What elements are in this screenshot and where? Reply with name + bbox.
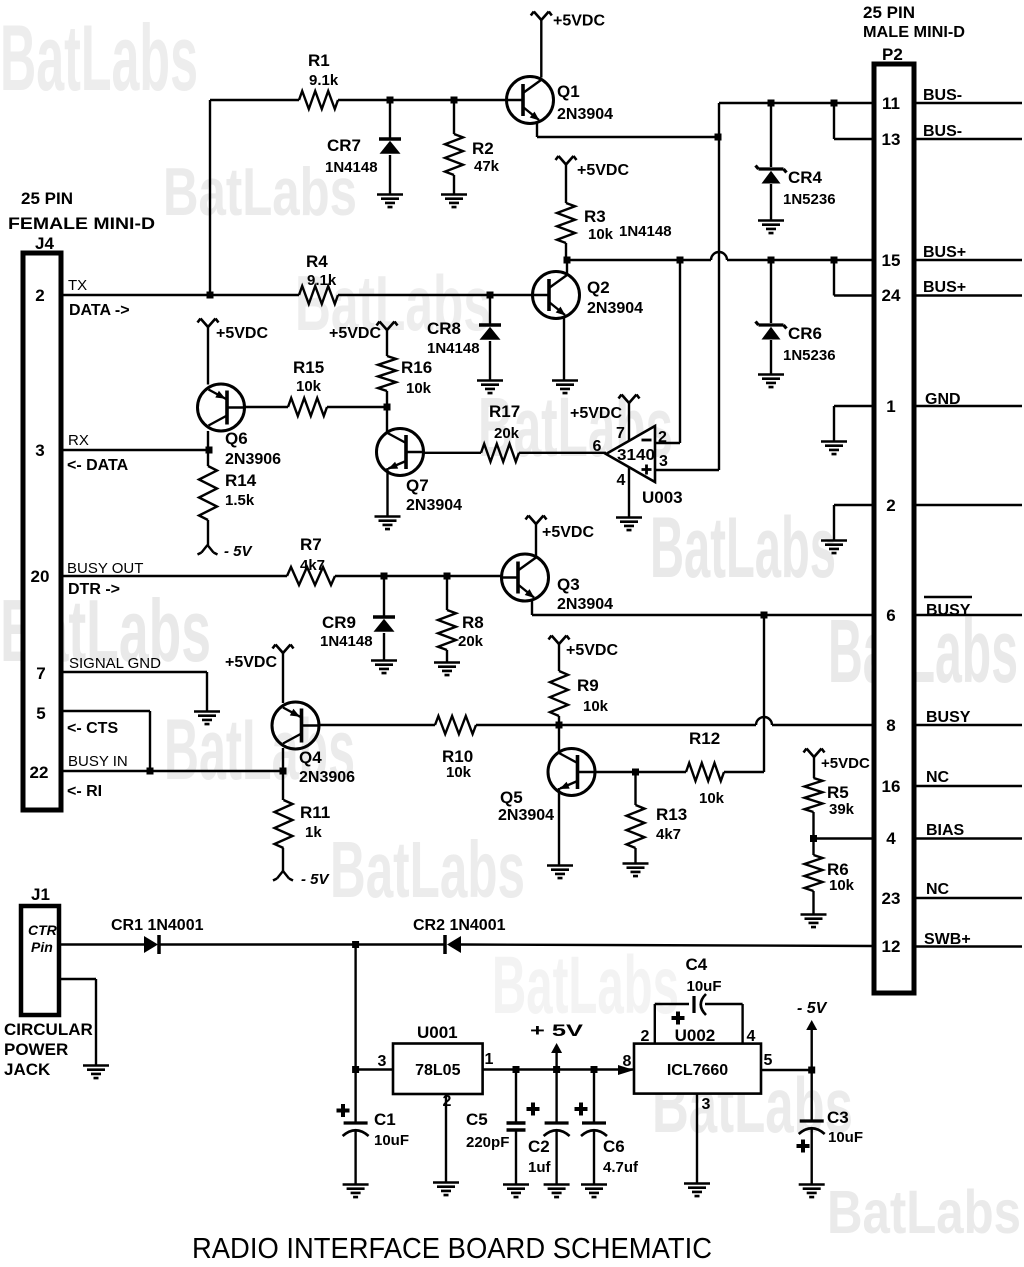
svg-text:4k7: 4k7 xyxy=(300,557,325,574)
ground below CR8 xyxy=(477,381,503,394)
svg-text:GND: GND xyxy=(925,391,961,408)
svg-text:16: 16 xyxy=(882,777,901,796)
svg-text:Q3: Q3 xyxy=(557,575,580,594)
svg-text:BatLabs: BatLabs xyxy=(650,500,836,596)
wire C2 to ground xyxy=(555,1129,557,1184)
svg-text:8: 8 xyxy=(886,716,895,735)
node pin24 branch junction xyxy=(831,257,838,264)
svg-text:CTR: CTR xyxy=(28,922,58,938)
svg-text:220pF: 220pF xyxy=(466,1134,509,1151)
wire junction to Q7 collector xyxy=(386,407,388,433)
power +5VDC antenna at R3 xyxy=(556,156,577,165)
svg-text:2: 2 xyxy=(886,496,895,515)
capacitor C4 bracket right xyxy=(705,1003,743,1005)
ground below Q7 xyxy=(375,517,401,530)
svg-text:15: 15 xyxy=(882,251,901,270)
ground below R2 xyxy=(441,195,467,208)
ground at SIGNAL GND xyxy=(194,712,220,725)
power +5VDC antenna at Q4 xyxy=(273,645,294,654)
power +5VDC antenna at R16 xyxy=(377,322,398,331)
wire U001 pin3 input xyxy=(356,1068,393,1070)
resistor R10 xyxy=(435,716,476,734)
power +5VDC antenna at R5 xyxy=(804,749,825,758)
svg-text:+5VDC: +5VDC xyxy=(566,642,618,659)
transistor Q4 xyxy=(272,702,319,749)
svg-text:2N3904: 2N3904 xyxy=(557,106,613,123)
wire BUSY IN line xyxy=(61,770,283,772)
wire Q3 emitter to pin6 xyxy=(531,600,533,615)
svg-text:10k: 10k xyxy=(588,226,614,243)
wire RX line xyxy=(61,449,209,451)
wire into U002 pin8 with arrowhead xyxy=(618,1065,634,1075)
svg-text:1N5236: 1N5236 xyxy=(783,347,836,364)
wire +5V rail xyxy=(483,1068,634,1070)
node pin13 branch junction xyxy=(831,100,838,107)
node CR6 junction xyxy=(768,257,775,264)
node R3/Q2 junction xyxy=(564,257,571,264)
wire BUS+ line right xyxy=(727,259,874,261)
power +5V arrow xyxy=(551,1043,562,1053)
resistor R2 xyxy=(453,100,455,134)
svg-text:2N3906: 2N3906 xyxy=(299,769,355,786)
wire Q5 emitter to ground xyxy=(558,788,560,865)
transistor Q6 xyxy=(198,384,245,431)
svg-text:1: 1 xyxy=(485,1051,494,1068)
ground at P2 pin1 xyxy=(821,442,847,455)
resistor R11 xyxy=(282,771,284,800)
resistor R14 xyxy=(207,450,209,466)
node CR9 junction xyxy=(381,573,388,580)
svg-text:FEMALE MINI-D: FEMALE MINI-D xyxy=(8,214,155,233)
node R9/Q5 junction xyxy=(556,722,563,729)
svg-text:RX: RX xyxy=(68,432,89,449)
wire CR9 to ground xyxy=(383,633,385,660)
svg-text:2N3904: 2N3904 xyxy=(557,596,613,613)
resistor R7 xyxy=(287,567,335,585)
svg-text:Q6: Q6 xyxy=(225,429,248,448)
connector P2 body xyxy=(874,64,914,993)
svg-text:+5VDC: +5VDC xyxy=(216,325,268,342)
resistor R13 xyxy=(634,772,636,805)
power +5VDC antenna at R9 xyxy=(549,636,570,645)
svg-text:3: 3 xyxy=(378,1053,387,1070)
node RX junction xyxy=(206,447,213,454)
capacitor C4 xyxy=(692,996,695,1013)
svg-text:1uf: 1uf xyxy=(528,1159,552,1176)
svg-text:NC: NC xyxy=(926,769,950,786)
svg-text:P2: P2 xyxy=(882,45,903,64)
wire R9 to junction xyxy=(558,716,560,725)
P2 right stub wire 1 xyxy=(914,102,1022,104)
wire Q6 collector down xyxy=(207,431,209,450)
svg-text:+ 5V: + 5V xyxy=(530,1021,584,1040)
svg-text:BIAS: BIAS xyxy=(926,822,965,839)
node Q4 emitter junction xyxy=(280,768,287,775)
svg-text:DTR ->: DTR -> xyxy=(68,581,120,598)
wire BUSY line to P2 pin8 xyxy=(772,724,874,726)
svg-text:5: 5 xyxy=(764,1052,773,1069)
svg-text:BatLabs: BatLabs xyxy=(330,825,525,914)
node R8 junction xyxy=(444,573,451,580)
ground below U001 xyxy=(433,1183,459,1196)
wire CTS branch xyxy=(61,710,150,712)
power +5VDC antenna at Q1 xyxy=(531,12,552,21)
svg-text:C3: C3 xyxy=(827,1108,849,1127)
C1 plus sign xyxy=(337,1104,350,1117)
svg-text:10k: 10k xyxy=(446,764,472,781)
node CR8 junction xyxy=(487,292,494,299)
wire J1 pin to CR1 xyxy=(59,943,144,945)
wire P2 pin1 to ground xyxy=(834,405,874,407)
wire pin24 branch xyxy=(833,260,835,296)
ground at J1 xyxy=(83,1066,109,1079)
wire R8 to ground xyxy=(446,650,448,662)
svg-text:23: 23 xyxy=(882,889,901,908)
wire R1 left corner xyxy=(210,99,299,101)
svg-text:POWER: POWER xyxy=(4,1040,68,1059)
diode CR1 xyxy=(144,936,158,953)
svg-text:5: 5 xyxy=(36,704,45,723)
svg-text:C1: C1 xyxy=(374,1110,396,1129)
svg-text:3: 3 xyxy=(35,441,44,460)
ground below R13 xyxy=(623,864,649,877)
svg-text:R16: R16 xyxy=(401,358,432,377)
svg-text:C5: C5 xyxy=(466,1110,488,1129)
svg-text:BatLabs: BatLabs xyxy=(0,5,198,110)
svg-text:MALE MINI-D: MALE MINI-D xyxy=(863,24,965,41)
wire U001 pin2 to ground xyxy=(445,1094,447,1182)
wire U003 pin4 to ground xyxy=(628,467,630,517)
svg-text:10uF: 10uF xyxy=(374,1132,409,1149)
wire Q4 base to R10 xyxy=(319,724,435,726)
ground below CR7 xyxy=(377,195,403,208)
ground at P2 pin2 xyxy=(821,541,847,554)
capacitor C5 xyxy=(515,1070,517,1122)
wire C3 to ground xyxy=(811,1127,813,1184)
svg-text:BUSY IN: BUSY IN xyxy=(68,753,128,770)
svg-text:4: 4 xyxy=(886,829,896,848)
P2 right stub wire 9 xyxy=(914,785,1022,787)
node TX/R1 junction xyxy=(207,292,214,299)
svg-text:24: 24 xyxy=(882,286,901,305)
ground below U003 xyxy=(616,518,642,531)
svg-text:R15: R15 xyxy=(293,358,324,377)
svg-text:39k: 39k xyxy=(829,801,855,818)
svg-text:2: 2 xyxy=(641,1028,650,1045)
transistor Q3 xyxy=(502,554,549,601)
svg-text:Q2: Q2 xyxy=(587,278,610,297)
wire pin13 branch xyxy=(833,103,835,139)
resistor R5 xyxy=(805,778,823,812)
ground below CR9 xyxy=(371,661,397,674)
node BIAS junction xyxy=(810,835,817,842)
svg-text:Pin: Pin xyxy=(31,939,53,955)
svg-text:3140: 3140 xyxy=(617,447,655,464)
wire R3 to BUS+ node xyxy=(565,243,567,260)
node R13 junction xyxy=(632,769,639,776)
svg-text:9.1k: 9.1k xyxy=(307,272,337,289)
node pin6 branch junction xyxy=(761,612,768,619)
ground below C2 xyxy=(544,1185,570,1198)
svg-text:+5VDC: +5VDC xyxy=(553,13,605,30)
IC U002 box xyxy=(634,1044,761,1094)
svg-text:1N4148: 1N4148 xyxy=(325,159,378,176)
svg-text:2N3904: 2N3904 xyxy=(498,807,554,824)
svg-text:1k: 1k xyxy=(305,824,322,841)
wire SIGNAL GND xyxy=(61,671,207,673)
svg-text:+5VDC: +5VDC xyxy=(329,325,381,342)
ground below C6 xyxy=(581,1185,607,1198)
power -5V arrow at R11 xyxy=(273,871,293,881)
wire C1 to ground xyxy=(354,1129,356,1184)
zener CR6 xyxy=(770,260,772,323)
svg-text:1: 1 xyxy=(886,397,895,416)
wire junction to Q5 collector xyxy=(558,725,560,751)
svg-text:C6: C6 xyxy=(603,1137,625,1156)
transistor Q7 xyxy=(377,429,424,476)
svg-text:CR4: CR4 xyxy=(788,168,823,187)
wire C6 to ground xyxy=(593,1129,595,1184)
diode CR2 xyxy=(443,935,447,954)
transistor Q1 xyxy=(507,77,554,124)
svg-text:4k7: 4k7 xyxy=(656,826,681,843)
svg-text:J1: J1 xyxy=(31,885,50,904)
svg-text:C4: C4 xyxy=(686,955,708,974)
node Q1 emitter junction xyxy=(715,134,722,141)
svg-text:R1: R1 xyxy=(308,51,330,70)
svg-text:R2: R2 xyxy=(472,139,494,158)
wire U003 pin3 input xyxy=(655,469,719,471)
capacitor C6 xyxy=(593,1070,595,1124)
svg-text:BatLabs: BatLabs xyxy=(827,1178,1021,1246)
svg-text:13: 13 xyxy=(882,130,901,149)
connector J1 body xyxy=(21,906,59,1015)
wire BUSY line to hop xyxy=(559,724,756,726)
node U001 input junction xyxy=(352,1066,359,1073)
resistor R9 xyxy=(550,671,568,716)
P2 right stub wire 5 xyxy=(914,405,1022,407)
svg-text:20: 20 xyxy=(31,567,50,586)
svg-text:<- DATA: <- DATA xyxy=(67,457,129,474)
wire CR8 to ground xyxy=(489,341,491,380)
P2 right stub wire 10 xyxy=(914,837,1022,839)
svg-text:BUSY: BUSY xyxy=(926,709,971,726)
node opamp pin2 branch junction xyxy=(677,257,684,264)
ground below R6 xyxy=(801,915,827,928)
ground below CR4 xyxy=(758,221,784,234)
ground below C1 xyxy=(343,1185,369,1198)
svg-text:7: 7 xyxy=(36,664,45,683)
svg-text:C2: C2 xyxy=(528,1137,550,1156)
svg-text:JACK: JACK xyxy=(4,1060,51,1079)
power -5V arrow at R14 xyxy=(198,545,218,555)
zener CR4 xyxy=(770,103,772,167)
svg-text:8: 8 xyxy=(623,1053,632,1070)
P2 right stub wire 3 xyxy=(914,259,1022,261)
svg-text:1N5236: 1N5236 xyxy=(783,191,836,208)
svg-text:R7: R7 xyxy=(300,535,322,554)
wire R16 to junction xyxy=(386,391,388,407)
svg-text:- 5V: - 5V xyxy=(224,543,254,560)
svg-text:4.7uf: 4.7uf xyxy=(603,1159,639,1176)
svg-text:CR6: CR6 xyxy=(788,324,822,343)
C4 plus sign xyxy=(672,1012,685,1025)
svg-text:20k: 20k xyxy=(494,425,520,442)
wire CR6 to ground xyxy=(770,340,772,374)
svg-text:12: 12 xyxy=(882,937,901,956)
wire P2 pin2 to ground xyxy=(834,504,874,506)
wire C5 to ground xyxy=(515,1130,517,1184)
wire R11 to -5V xyxy=(282,848,284,871)
svg-text:BUS-: BUS- xyxy=(923,123,962,140)
wire J1 sleeve to ground xyxy=(59,978,96,980)
node CR7 junction xyxy=(387,97,394,104)
svg-text:R13: R13 xyxy=(656,805,687,824)
wire hop over BUS- vertical xyxy=(711,252,727,260)
power +5VDC antenna at Q6 xyxy=(198,319,219,328)
svg-text:10k: 10k xyxy=(829,877,855,894)
wire Q4 emitter down xyxy=(282,748,284,771)
diode CR8 xyxy=(489,295,491,324)
svg-text:+5VDC: +5VDC xyxy=(570,405,622,422)
op-amp U003 triangle xyxy=(606,426,655,482)
svg-text:U001: U001 xyxy=(417,1023,458,1042)
svg-text:SIGNAL GND: SIGNAL GND xyxy=(69,655,161,672)
svg-text:CR9: CR9 xyxy=(322,613,356,632)
svg-text:7: 7 xyxy=(616,425,625,442)
wire R10 to R9 junction xyxy=(476,724,559,726)
svg-text:22: 22 xyxy=(30,763,49,782)
node CR4 junction xyxy=(768,100,775,107)
svg-text:- 5V: - 5V xyxy=(797,1000,828,1017)
svg-text:+5VDC: +5VDC xyxy=(821,755,870,772)
svg-text:CR1 1N4001: CR1 1N4001 xyxy=(111,917,204,934)
wire R17 to opamp output xyxy=(519,452,606,454)
transistor Q5 xyxy=(548,749,595,796)
node C6 junction xyxy=(591,1066,598,1073)
svg-text:NC: NC xyxy=(926,881,950,898)
power +5VDC antenna at Q3 xyxy=(526,516,547,525)
svg-text:BUSY OUT: BUSY OUT xyxy=(67,560,143,577)
diode CR7 xyxy=(389,100,391,138)
wire junction to R12 xyxy=(636,771,687,773)
ground below Q2 xyxy=(552,381,578,394)
wire pin11 horizontal xyxy=(719,102,874,104)
node +5V junction xyxy=(553,1066,560,1073)
svg-text:R11: R11 xyxy=(300,803,330,822)
power -5V arrow at C3 xyxy=(806,1020,817,1030)
svg-text:BUS+: BUS+ xyxy=(923,279,966,296)
wire R15 to junction xyxy=(327,406,387,408)
svg-text:10k: 10k xyxy=(699,790,725,807)
resistor R16 xyxy=(378,356,396,391)
resistor R15 xyxy=(288,398,327,416)
resistor R1 xyxy=(299,91,338,109)
connector J4 body xyxy=(23,253,61,810)
node -5V junction xyxy=(808,1067,815,1074)
wire R7 to Q3 base xyxy=(335,575,502,577)
resistor R3 xyxy=(557,203,575,243)
wire R13 to ground xyxy=(634,848,636,863)
wire Q5 base to R13 junction xyxy=(595,771,636,773)
wire CR4 to ground xyxy=(770,184,772,220)
wire TX line xyxy=(61,294,299,296)
svg-text:10uF: 10uF xyxy=(687,978,722,995)
capacitor C1 xyxy=(354,1070,356,1124)
wire BUS- vertical xyxy=(718,103,720,470)
svg-text:R5: R5 xyxy=(827,783,849,802)
svg-text:1.5k: 1.5k xyxy=(225,492,255,509)
wire Q2 emitter to ground xyxy=(563,317,565,380)
wire Q1 emitter xyxy=(536,123,538,137)
svg-text:DATA ->: DATA -> xyxy=(69,302,130,319)
P2 right stub wire 6 xyxy=(914,504,1022,506)
wire BUS+ line left xyxy=(567,259,711,261)
svg-text:J4: J4 xyxy=(35,234,54,253)
capacitor C3 xyxy=(811,1070,813,1121)
svg-text:1N4148: 1N4148 xyxy=(619,223,672,240)
svg-text:10uF: 10uF xyxy=(828,1129,863,1146)
wire hop over pin6 vertical xyxy=(756,717,772,725)
capacitor C2 xyxy=(555,1070,557,1124)
svg-text:1N4148: 1N4148 xyxy=(320,633,373,650)
svg-text:CR8: CR8 xyxy=(427,319,461,338)
ground below CR6 xyxy=(758,375,784,388)
svg-text:CIRCULAR: CIRCULAR xyxy=(4,1020,93,1039)
capacitor C4 bracket left xyxy=(654,1004,656,1044)
ground below C3 xyxy=(799,1185,825,1198)
wire Q6 base to R15 xyxy=(245,406,289,408)
resistor R6 xyxy=(812,839,814,856)
op-amp plus sign xyxy=(642,465,652,475)
svg-text:+5VDC: +5VDC xyxy=(542,524,594,541)
svg-text:BUS-: BUS- xyxy=(923,87,962,104)
svg-text:+5VDC: +5VDC xyxy=(577,162,629,179)
op-amp minus sign xyxy=(642,439,652,442)
svg-text:10k: 10k xyxy=(583,698,609,715)
wire Q7 emitter to ground xyxy=(386,468,388,516)
svg-text:R14: R14 xyxy=(225,471,257,490)
svg-text:Q7: Q7 xyxy=(406,476,429,495)
wire Q7 base to R17 xyxy=(424,452,482,454)
wire R6 to ground xyxy=(812,891,814,914)
wire pin6 branch vertical xyxy=(763,615,765,772)
resistor R4 xyxy=(299,286,338,304)
P2 right stub wire 4 xyxy=(914,294,1022,296)
svg-text:R9: R9 xyxy=(577,676,599,695)
ground below Q5 xyxy=(547,866,573,879)
node raw DC junction xyxy=(352,941,359,948)
IC U001 box xyxy=(393,1044,483,1095)
wire R12 to pin6 vertical xyxy=(724,771,764,773)
P2 right stub wire 7 xyxy=(914,614,1022,616)
svg-text:BUS+: BUS+ xyxy=(923,244,966,261)
svg-text:TX: TX xyxy=(68,277,87,294)
svg-text:R12: R12 xyxy=(689,729,720,748)
svg-text:9.1k: 9.1k xyxy=(309,72,339,89)
svg-text:CR2 1N4001: CR2 1N4001 xyxy=(413,917,506,934)
svg-text:BatLabs: BatLabs xyxy=(828,602,1018,702)
svg-text:BUSY: BUSY xyxy=(926,602,971,619)
node R2 junction xyxy=(451,97,458,104)
svg-text:R8: R8 xyxy=(462,613,484,632)
wire U002 pin3 to ground xyxy=(696,1094,698,1183)
C6 plus sign xyxy=(575,1103,588,1116)
ground below C5 xyxy=(503,1185,529,1198)
P2 right stub wire 12 xyxy=(914,945,1022,947)
svg-text:3: 3 xyxy=(659,453,668,470)
wire R5 to BIAS junction xyxy=(812,812,814,839)
